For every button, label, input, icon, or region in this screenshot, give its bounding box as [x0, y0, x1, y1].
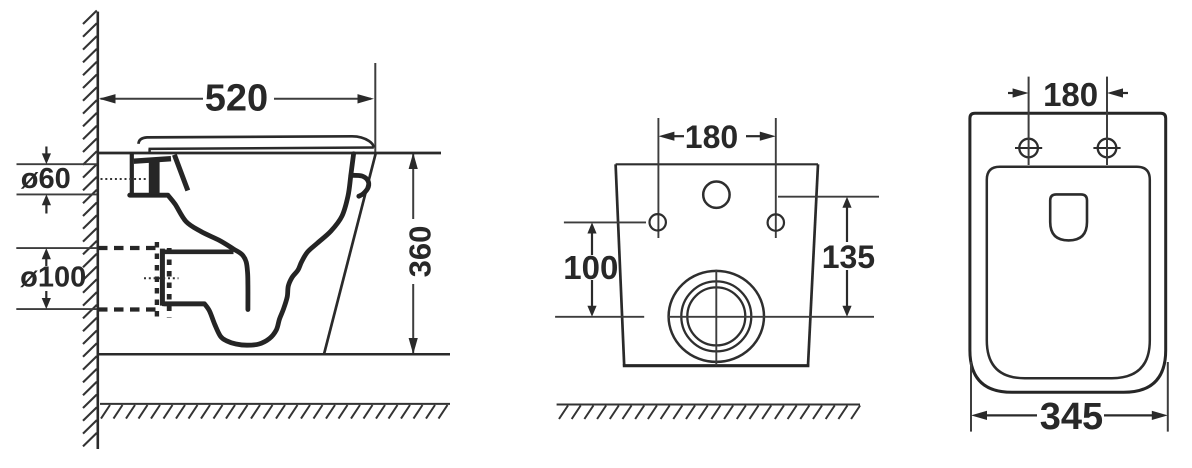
svg-text:180: 180	[685, 119, 738, 155]
svg-text:ø100: ø100	[20, 261, 86, 293]
svg-text:345: 345	[1040, 396, 1103, 438]
svg-text:520: 520	[205, 78, 268, 120]
svg-text:135: 135	[822, 239, 875, 275]
svg-text:ø60: ø60	[21, 163, 71, 195]
svg-text:360: 360	[402, 226, 437, 278]
svg-text:180: 180	[1043, 76, 1098, 113]
svg-text:100: 100	[563, 249, 618, 286]
